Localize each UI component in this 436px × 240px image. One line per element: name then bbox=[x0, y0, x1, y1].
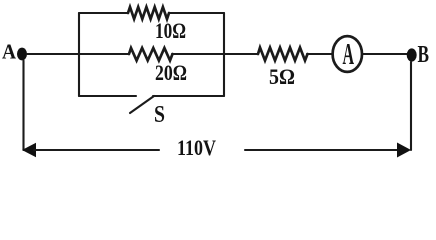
parallel box bottom-left wire bbox=[79, 95, 136, 97]
dimension left arrowhead bbox=[22, 143, 36, 157]
left extension wire from A down bbox=[22, 61, 24, 151]
wire 5ohm to ammeter bbox=[307, 53, 332, 55]
svg-text:110V: 110V bbox=[177, 135, 216, 160]
svg-text:S: S bbox=[154, 102, 165, 128]
svg-text:A: A bbox=[2, 40, 17, 64]
parallel box top-left wire bbox=[79, 12, 128, 14]
resistor R1 10ohm zigzag bbox=[128, 7, 169, 19]
parallel box bottom-right wire bbox=[153, 95, 224, 97]
dimension right arrowhead bbox=[397, 143, 411, 158]
svg-text:B: B bbox=[418, 42, 430, 68]
parallel box left side bbox=[78, 13, 80, 96]
ammeter U1 circle bbox=[333, 36, 362, 72]
svg-text:5Ω: 5Ω bbox=[269, 64, 295, 89]
parallel box right side bbox=[223, 13, 225, 96]
resistor R2 20ohm zigzag bbox=[129, 48, 173, 61]
switch S blade bbox=[130, 96, 154, 113]
node B dot bbox=[407, 48, 417, 61]
wire 20ohm to 5ohm resistor bbox=[172, 53, 258, 55]
resistor R3 5ohm zigzag bbox=[258, 48, 308, 61]
node A dot bbox=[17, 48, 27, 61]
wire A to 20ohm resistor bbox=[27, 53, 129, 55]
parallel box top-right wire bbox=[169, 12, 224, 14]
dimension left shaft bbox=[34, 149, 159, 151]
svg-text:A: A bbox=[343, 36, 355, 71]
dimension right shaft bbox=[245, 149, 399, 151]
wire ammeter to node B bbox=[362, 53, 407, 55]
svg-text:20Ω: 20Ω bbox=[155, 60, 187, 85]
svg-text:10Ω: 10Ω bbox=[155, 18, 186, 43]
right extension wire from B down bbox=[410, 62, 412, 150]
